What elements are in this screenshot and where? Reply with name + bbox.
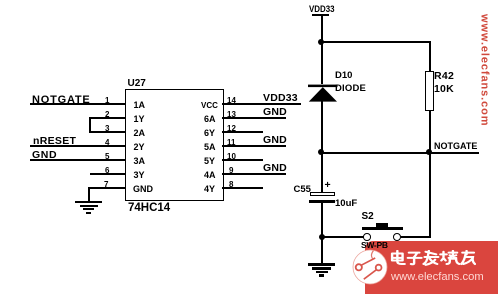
wire diode cathode (321, 101, 323, 153)
wire NOTGATE horizontal (321, 152, 479, 154)
R42 refdes label (434, 70, 454, 82)
pin 3Y label (134, 170, 145, 180)
wire ground stem (321, 237, 323, 263)
D10 refdes label (335, 70, 352, 81)
pin 3A label (134, 156, 146, 166)
capacitor C55 bottom plate (309, 200, 335, 203)
DIODE value label (335, 83, 366, 94)
pin 4Y label (204, 184, 215, 194)
U27 refdes label (128, 78, 146, 89)
烧 (440, 251, 459, 264)
友 (461, 251, 475, 264)
wire pin11 (222, 145, 286, 147)
wire right vertical upper (429, 41, 431, 71)
ground (U27 pin7) (75, 201, 102, 203)
pin GND label (133, 184, 153, 194)
switch S2 (362, 211, 374, 222)
resistor R42 (425, 71, 434, 111)
node NOTGATE right label (434, 141, 477, 151)
发 (424, 251, 439, 265)
pin number 13 (227, 110, 236, 119)
capacitor C55 plus sign (325, 179, 331, 191)
node GND label r6 (263, 162, 287, 174)
node VDD33 label (263, 92, 298, 104)
pin number 11 (227, 138, 235, 147)
node junction notgate-right (426, 149, 432, 155)
pin number 2 (105, 110, 109, 119)
wire right vertical lower (429, 153, 431, 237)
pin number 5 (105, 152, 109, 161)
wire diode anode (321, 42, 323, 84)
pin number 4 (105, 138, 109, 147)
pin number 10 (227, 152, 236, 161)
pin number 8 (229, 180, 233, 189)
switch S2 right contact (393, 233, 401, 241)
10K value label (434, 83, 454, 95)
node junction notgate-left (318, 149, 324, 155)
wire cap bottom (321, 203, 323, 237)
74HC14 value label (128, 202, 170, 214)
ground (bottom) (308, 263, 335, 265)
node NOTGATE label (32, 94, 91, 106)
子 (408, 253, 422, 265)
wire pin8 (222, 187, 263, 189)
wire bottom horizontal right (401, 236, 431, 238)
pin number 12 (227, 124, 236, 133)
watermark chinese text 电子发烧友 (390, 250, 476, 268)
pin VCC label (201, 101, 218, 110)
wire pin7 down to ground (88, 187, 90, 201)
pin 2A label (134, 128, 146, 138)
pin number 6 (105, 166, 109, 175)
pin 5Y label (204, 156, 215, 166)
wire pin4 nRESET (30, 145, 126, 147)
wire top horizontal (321, 41, 431, 43)
wire cap top (321, 153, 323, 192)
pin number 1 (105, 96, 109, 105)
watermark url text (391, 271, 484, 283)
wire pin7 (88, 187, 126, 189)
pin 1A label (134, 100, 146, 110)
switch S2 actuator bar (376, 223, 389, 228)
wire right vertical below resistor (429, 111, 431, 153)
wire pin9 (222, 173, 286, 175)
SW-PB value label (361, 240, 388, 250)
diode D10 (308, 82, 338, 103)
node GND label left (32, 149, 57, 161)
wire pin13 (222, 117, 286, 119)
node GND label r4 (263, 134, 287, 146)
wire loop vertical pin2-pin3 (89, 117, 91, 132)
pin 5A label (204, 142, 216, 152)
switch S2 left contact (363, 233, 371, 241)
wire pin6 (90, 173, 126, 175)
node nRESET label (33, 135, 76, 147)
pin number 7 (104, 180, 108, 189)
watermark box elecfans (365, 241, 498, 294)
op-amp U1 : IC body 74HC14 (125, 89, 224, 201)
node junction top (318, 39, 324, 45)
wire pin12 (222, 131, 263, 133)
power VDD33 symbol (309, 4, 335, 14)
pin number 9 (229, 166, 233, 175)
wire bottom horizontal left (321, 236, 364, 238)
C55 refdes label (294, 184, 311, 195)
node GND label r2 (263, 106, 287, 118)
pin number 3 (105, 124, 109, 133)
wire power stem (321, 15, 323, 42)
pin 4A label (204, 170, 216, 180)
pin 1Y label (134, 114, 145, 124)
wire pin10 (222, 159, 263, 161)
watermark vertical text www.elecfans.com (478, 14, 491, 144)
wire pin1 NOTGATE (30, 103, 126, 105)
capacitor C55 top plate (310, 192, 335, 196)
pin number 14 (227, 96, 236, 105)
pin 6Y label (204, 128, 215, 138)
电 (392, 251, 405, 264)
10uF value label (335, 198, 357, 209)
wire pin2 (89, 117, 126, 119)
pin 2Y label (134, 142, 145, 152)
wire pin14 VDD33 (222, 103, 301, 105)
watermark logo (352, 249, 388, 285)
pin 6A label (204, 114, 216, 124)
wire pin3 (89, 131, 126, 133)
node junction bottom (319, 234, 325, 240)
wire pin5 GND (30, 159, 126, 161)
